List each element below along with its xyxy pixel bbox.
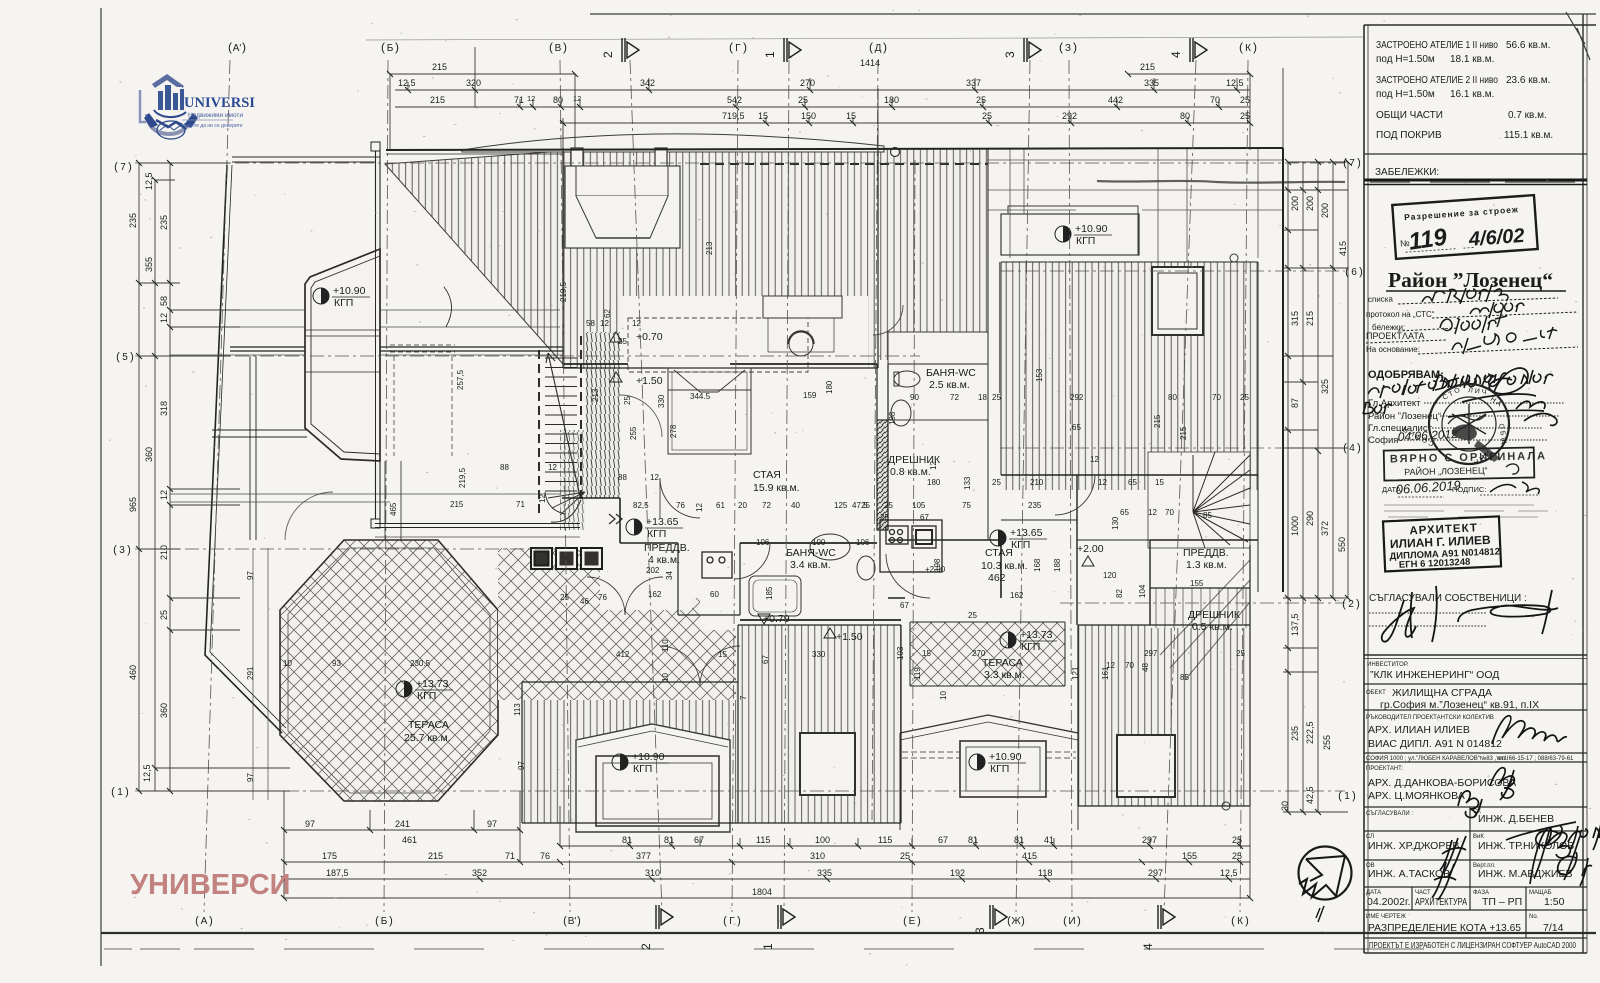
svg-text:Б: Б <box>381 916 388 927</box>
svg-text:): ) <box>1253 40 1257 54</box>
top edge wall <box>386 148 1283 150</box>
svg-text:67: 67 <box>694 835 704 845</box>
svg-text:121: 121 <box>1071 666 1080 680</box>
right dim labels (rotated) <box>1280 196 1348 811</box>
svg-text:965: 965 <box>128 497 138 512</box>
svg-text:215: 215 <box>430 95 445 105</box>
svg-text:): ) <box>1357 157 1361 169</box>
svg-text:2: 2 <box>1348 599 1354 610</box>
room labels <box>404 331 1241 865</box>
bath WC 3.4 fixtures <box>749 534 875 616</box>
building outer walls <box>170 142 1283 823</box>
area summary text <box>1376 40 1553 141</box>
svg-text:протокол на „СТС“: протокол на „СТС“ <box>1366 310 1435 319</box>
svg-text:К: К <box>1237 916 1243 927</box>
svg-text:): ) <box>737 915 741 927</box>
svg-text:1414: 1414 <box>860 58 880 68</box>
svg-text:СЪГЛАСУВАЛИ :: СЪГЛАСУВАЛИ : <box>1366 811 1413 817</box>
svg-text:списка: списка <box>1368 295 1394 304</box>
svg-text:97: 97 <box>305 819 315 829</box>
svg-text:61: 61 <box>716 501 725 510</box>
svg-text:159: 159 <box>803 391 817 400</box>
svg-text:41: 41 <box>1044 835 1054 845</box>
svg-text:222,5: 222,5 <box>1305 721 1315 744</box>
svg-text:270: 270 <box>972 649 986 658</box>
svg-text:): ) <box>1245 915 1249 927</box>
svg-text:320: 320 <box>466 78 481 88</box>
svg-text:): ) <box>1356 598 1360 610</box>
svg-text:155: 155 <box>1190 579 1204 588</box>
svg-text:377: 377 <box>636 851 651 861</box>
svg-text:465: 465 <box>389 502 398 516</box>
svg-text:71: 71 <box>514 95 524 105</box>
svg-text:462: 462 <box>988 572 1006 584</box>
svg-text:ПРЕДДВ.: ПРЕДДВ. <box>644 542 690 554</box>
svg-text:67: 67 <box>761 655 770 664</box>
bed furniture <box>668 368 751 454</box>
bottom scan noise dashed row <box>104 948 1424 950</box>
svg-text:81: 81 <box>664 835 674 845</box>
svg-text:20: 20 <box>738 501 747 510</box>
svg-text:16.1 кв.м.: 16.1 кв.м. <box>1450 89 1494 100</box>
svg-text:(: ( <box>549 40 553 54</box>
svg-text:(: ( <box>1342 598 1346 610</box>
svg-text:106: 106 <box>856 538 870 547</box>
svg-text:+13.65: +13.65 <box>1010 527 1043 539</box>
svg-text:58: 58 <box>586 319 595 328</box>
svg-text:412: 412 <box>616 650 630 659</box>
svg-text:70: 70 <box>1212 393 1221 402</box>
svg-text:87: 87 <box>1290 398 1300 408</box>
svg-text:7: 7 <box>120 162 126 173</box>
svg-text:550: 550 <box>1337 537 1347 552</box>
svg-text:81: 81 <box>968 835 978 845</box>
arc band above dormer <box>460 126 884 152</box>
svg-text:125: 125 <box>834 501 848 510</box>
svg-text:297: 297 <box>1144 649 1158 658</box>
svg-text:80: 80 <box>1180 111 1190 121</box>
svg-text:97: 97 <box>487 819 497 829</box>
white dormer cutout bottom-left balcony <box>576 724 730 832</box>
svg-text:215: 215 <box>1305 311 1315 326</box>
title block frame <box>1363 25 1365 953</box>
svg-text:12: 12 <box>159 313 169 323</box>
svg-text:215: 215 <box>1140 62 1155 72</box>
UNIVERSI logo top-left <box>140 74 255 139</box>
axis dash-dot grid lines vertical <box>204 60 1248 912</box>
top dimension chains <box>390 47 1283 150</box>
svg-text:РЪКОВОДИТЕЛ ПРОЕКТАНТСКИ КОЛЕК: РЪКОВОДИТЕЛ ПРОЕКТАНТСКИ КОЛЕКТИВ <box>1366 715 1494 721</box>
svg-text:192: 192 <box>950 868 965 878</box>
svg-text:7/14: 7/14 <box>1543 922 1564 934</box>
svg-text:): ) <box>1352 790 1356 802</box>
svg-text:241: 241 <box>395 819 410 829</box>
small level triangles <box>610 332 1094 638</box>
left slant edge <box>205 165 282 733</box>
svg-text:10: 10 <box>283 659 292 668</box>
svg-text:З: З <box>1065 43 1071 54</box>
svg-text:12,5: 12,5 <box>1220 868 1238 878</box>
svg-text:297: 297 <box>1142 835 1157 845</box>
svg-text:Ж: Ж <box>1011 916 1021 927</box>
svg-text:460: 460 <box>128 665 138 680</box>
svg-text:): ) <box>577 915 581 927</box>
svg-text:15: 15 <box>758 111 768 121</box>
svg-text:85: 85 <box>1203 511 1212 520</box>
dotted note lines with handwriting <box>1366 295 1435 354</box>
svg-text:442: 442 <box>1108 95 1123 105</box>
svg-text:88: 88 <box>500 463 509 472</box>
svg-text:75: 75 <box>962 501 971 510</box>
svg-text:КГП: КГП <box>417 690 436 702</box>
svg-text:+2.00: +2.00 <box>925 565 946 574</box>
svg-text:113: 113 <box>513 703 522 716</box>
svg-text:344.5: 344.5 <box>690 392 711 401</box>
svg-text:10: 10 <box>661 673 670 682</box>
hatch block borders <box>563 148 878 368</box>
svg-text:202: 202 <box>646 566 660 575</box>
svg-text:115.1 кв.м.: 115.1 кв.м. <box>1504 130 1553 141</box>
dormer chimney strips <box>571 148 583 178</box>
roof hatch top-left triangle <box>385 151 563 364</box>
svg-text:1000: 1000 <box>1290 516 1300 536</box>
svg-text:330: 330 <box>812 650 826 659</box>
svg-text:12: 12 <box>695 503 704 512</box>
svg-text:25: 25 <box>560 593 569 602</box>
svg-text:200: 200 <box>1320 203 1330 218</box>
signature right <box>1448 401 1557 425</box>
svg-text:15: 15 <box>846 111 856 121</box>
svg-text:): ) <box>1073 40 1077 54</box>
level mark symbols <box>313 223 1112 775</box>
svg-text:180: 180 <box>927 478 941 487</box>
svg-text:215: 215 <box>1179 426 1188 440</box>
svg-text:255: 255 <box>629 426 638 440</box>
svg-text:КГП: КГП <box>1021 641 1040 653</box>
svg-text:1804: 1804 <box>752 887 772 897</box>
svg-text:4/6/02: 4/6/02 <box>1467 225 1525 251</box>
svg-text:): ) <box>563 40 567 54</box>
top-right region sparse lines <box>988 148 1345 262</box>
svg-text:): ) <box>395 40 399 54</box>
svg-text:25: 25 <box>992 393 1001 402</box>
svg-text:81: 81 <box>622 835 632 845</box>
svg-text:): ) <box>917 915 921 927</box>
middle dormer hood between balconies <box>900 715 1078 830</box>
svg-text:): ) <box>743 40 747 54</box>
white corridor cutout in cross-hatch <box>600 548 692 610</box>
interior walls right wing <box>1001 475 1258 625</box>
svg-text:12: 12 <box>929 461 938 470</box>
svg-text:105: 105 <box>912 501 926 510</box>
svg-text:80: 80 <box>1168 393 1177 402</box>
svg-text:23.6 кв.м.: 23.6 кв.м. <box>1506 75 1550 86</box>
svg-text:25.7 кв.м.: 25.7 кв.м. <box>404 732 451 744</box>
svg-text:72: 72 <box>950 393 959 402</box>
svg-text:198: 198 <box>888 411 897 425</box>
axis bubbles left/right <box>111 157 1363 802</box>
svg-text:ЗАСТРОЕНО АТЕЛИЕ 2 II ниво: ЗАСТРОЕНО АТЕЛИЕ 2 II ниво <box>1376 75 1498 86</box>
svg-text:На основание:: На основание: <box>1366 345 1420 354</box>
svg-text:4: 4 <box>1141 943 1155 950</box>
svg-text:65: 65 <box>1120 508 1129 517</box>
svg-text:7: 7 <box>1349 158 1355 169</box>
svg-text:КГП: КГП <box>1011 539 1030 551</box>
round municipal stamp <box>1402 384 1509 466</box>
svg-text:ПРЕДДВ.: ПРЕДДВ. <box>1183 547 1229 559</box>
svg-text:+13.73: +13.73 <box>416 678 449 690</box>
svg-text:200: 200 <box>1305 196 1315 211</box>
svg-text:25: 25 <box>1236 649 1245 658</box>
left dimension chains <box>139 163 290 791</box>
terrace cross-hatch right band <box>498 548 736 700</box>
svg-text:Можете да ни се доверите: Можете да ни се доверите <box>181 123 243 129</box>
svg-text:25: 25 <box>1240 393 1249 402</box>
svg-text:1:50: 1:50 <box>1544 896 1565 908</box>
svg-text:1: 1 <box>117 787 123 798</box>
svg-text:”КЛК ИНЖЕНЕРИНГ“ ООД: ”КЛК ИНЖЕНЕРИНГ“ ООД <box>1370 669 1499 681</box>
svg-text:СТАЯ: СТАЯ <box>753 469 781 481</box>
svg-text:ПОДПИС:: ПОДПИС: <box>1452 485 1486 494</box>
svg-text:12,5: 12,5 <box>398 78 416 88</box>
svg-text:): ) <box>1359 266 1363 278</box>
svg-text:310: 310 <box>810 851 825 861</box>
svg-text:АРХИТЕКТУРА: АРХИТЕКТУРА <box>1415 896 1467 908</box>
svg-text:ТП – РП: ТП – РП <box>1482 896 1522 908</box>
svg-text:тел. 66-15-17 ; 088/63-79-61: тел. 66-15-17 ; 088/63-79-61 <box>1496 756 1574 762</box>
svg-text:3.3 кв.м.: 3.3 кв.м. <box>984 669 1025 681</box>
svg-text:+10.90: +10.90 <box>1075 223 1108 235</box>
svg-text:Д: Д <box>875 43 882 54</box>
svg-text:104: 104 <box>1138 584 1147 598</box>
svg-text:100: 100 <box>812 538 826 547</box>
svg-text:4: 4 <box>1169 51 1183 58</box>
svg-text:6: 6 <box>1351 267 1357 278</box>
axis dash-dot grid lines horizontal <box>135 163 1345 791</box>
svg-text:12: 12 <box>538 494 547 503</box>
svg-text:Район ”Лозенец“: Район ”Лозенец“ <box>1388 268 1553 292</box>
svg-text:РАЗПРЕДЕЛЕНИЕ КОТА +13.65: РАЗПРЕДЕЛЕНИЕ КОТА +13.65 <box>1368 922 1521 934</box>
svg-text:335: 335 <box>817 868 832 878</box>
svg-text:210: 210 <box>1030 478 1044 487</box>
svg-text:Г: Г <box>735 43 741 54</box>
svg-text:40: 40 <box>791 501 800 510</box>
svg-text:110: 110 <box>661 639 670 652</box>
svg-text:): ) <box>128 161 132 173</box>
svg-text:318: 318 <box>159 401 169 416</box>
svg-text:ОБЩИ ЧАСТИ: ОБЩИ ЧАСТИ <box>1376 110 1443 121</box>
svg-text:(: ( <box>869 40 873 54</box>
svg-text:7: 7 <box>739 695 748 700</box>
svg-text:15: 15 <box>718 650 727 659</box>
svg-text:25: 25 <box>884 501 893 510</box>
svg-text:76: 76 <box>676 501 685 510</box>
svg-text:10.3 кв.м.: 10.3 кв.м. <box>981 560 1028 572</box>
svg-text:219,5: 219,5 <box>458 467 467 488</box>
svg-text:168: 168 <box>1033 558 1042 572</box>
svg-text:1: 1 <box>1344 791 1350 802</box>
roof hatch bottom-right balcony <box>1078 625 1250 806</box>
svg-text:Г: Г <box>729 916 735 927</box>
svg-text:ТЕРАСА: ТЕРАСА <box>408 719 449 731</box>
heavy dash axis line over hatch <box>700 163 1283 165</box>
svg-text:215: 215 <box>450 500 464 509</box>
official lines <box>1368 398 1441 446</box>
svg-text:25: 25 <box>982 111 992 121</box>
svg-text:25: 25 <box>1232 851 1242 861</box>
svg-text:461: 461 <box>402 835 417 845</box>
left wing interior lines <box>212 356 307 540</box>
svg-text:415: 415 <box>1338 241 1348 256</box>
svg-text:под H=1.50м: под H=1.50м <box>1376 89 1435 100</box>
svg-text:БАНЯ-WC: БАНЯ-WC <box>786 547 836 559</box>
svg-text:297: 297 <box>1148 868 1163 878</box>
interior walls middle <box>562 364 1001 620</box>
svg-text:): ) <box>1021 915 1025 927</box>
svg-text:(: ( <box>228 40 232 54</box>
svg-text:60: 60 <box>710 590 719 599</box>
svg-text:187,5: 187,5 <box>326 868 349 878</box>
svg-text:342: 342 <box>640 78 655 88</box>
svg-text:150: 150 <box>801 111 816 121</box>
svg-text:КГП: КГП <box>334 297 353 309</box>
svg-text:(: ( <box>723 915 727 927</box>
svg-text:25: 25 <box>618 337 627 346</box>
svg-text:133: 133 <box>963 476 972 490</box>
svg-text:КГП: КГП <box>1076 235 1095 247</box>
svg-text:48: 48 <box>1141 663 1150 672</box>
svg-text:25: 25 <box>1240 95 1250 105</box>
svg-text:25: 25 <box>992 478 1001 487</box>
door arcs <box>252 305 1095 862</box>
svg-text:ПРОЕКТΛАТА: ПРОЕКТΛАТА <box>1366 331 1425 341</box>
svg-text:1: 1 <box>761 943 775 950</box>
svg-text:235: 235 <box>128 213 138 228</box>
svg-text:542: 542 <box>727 95 742 105</box>
svg-text:0.7 кв.м.: 0.7 кв.м. <box>1508 110 1547 121</box>
svg-text:12: 12 <box>650 473 659 482</box>
svg-text:235: 235 <box>1028 501 1042 510</box>
white cutout above +0.70 area <box>620 296 868 372</box>
svg-text:+10.90: +10.90 <box>632 751 665 763</box>
svg-text:25: 25 <box>1232 835 1242 845</box>
svg-text:4 кв.м.: 4 кв.м. <box>648 554 680 566</box>
left stair steps <box>539 336 622 524</box>
svg-text:+13.73: +13.73 <box>1020 629 1053 641</box>
svg-text:93: 93 <box>332 659 341 668</box>
right spiral stair fan <box>1160 452 1250 680</box>
svg-text:(: ( <box>1343 442 1347 454</box>
bath WC 2.5 fixtures <box>891 371 920 426</box>
svg-text:355: 355 <box>144 257 154 272</box>
svg-text:330: 330 <box>657 394 666 408</box>
axis bubbles top <box>228 40 1257 54</box>
svg-text:АРХ. ИЛИАН ИЛИЕВ: АРХ. ИЛИАН ИЛИЕВ <box>1368 724 1470 736</box>
svg-text:257,5: 257,5 <box>456 369 465 390</box>
svg-text:(: ( <box>1059 40 1063 54</box>
svg-text:310: 310 <box>645 868 660 878</box>
permit stamp <box>1392 195 1537 259</box>
svg-text:235: 235 <box>1290 726 1300 741</box>
svg-text:80: 80 <box>553 95 563 105</box>
small terrace cross-hatch right <box>910 622 1065 686</box>
table texts <box>1366 662 1576 950</box>
svg-text:+1.50: +1.50 <box>636 375 663 387</box>
svg-text:278: 278 <box>669 424 678 438</box>
svg-text:Е: Е <box>909 916 916 927</box>
svg-text:162: 162 <box>648 590 662 599</box>
svg-text:(: ( <box>903 915 907 927</box>
svg-text:ОБЕКТ: ОБЕКТ <box>1366 690 1386 696</box>
svg-text:UNIVERSI: UNIVERSI <box>184 95 255 111</box>
section markers bottom <box>639 905 1175 950</box>
svg-text:25: 25 <box>900 851 910 861</box>
svg-text:15.9 кв.м.: 15.9 кв.м. <box>753 482 800 494</box>
svg-text:103: 103 <box>896 646 905 660</box>
svg-text:70: 70 <box>1210 95 1220 105</box>
svg-text:ЗАСТРОЕНО АТЕЛИЕ 1 II ниво: ЗАСТРОЕНО АТЕЛИЕ 1 II ниво <box>1376 40 1498 51</box>
svg-text:18: 18 <box>978 393 987 402</box>
upper structure left edge <box>376 148 381 524</box>
svg-text:БАНЯ-WC: БАНЯ-WC <box>926 367 976 379</box>
svg-text:82,5: 82,5 <box>633 501 649 510</box>
svg-text:3.4 кв.м.: 3.4 кв.м. <box>790 559 831 571</box>
svg-text:230.5: 230.5 <box>410 659 431 668</box>
svg-text:215: 215 <box>1153 414 1162 428</box>
svg-text:97: 97 <box>246 773 255 782</box>
svg-text:12,5: 12,5 <box>144 172 154 190</box>
svg-text:2: 2 <box>639 943 653 950</box>
svg-text:1: 1 <box>763 51 777 58</box>
electric panels dark squares <box>531 548 602 569</box>
bottom dim labels <box>305 819 1242 897</box>
svg-text:04.2002г.: 04.2002г. <box>1367 896 1410 908</box>
svg-text:71: 71 <box>505 851 515 861</box>
svg-text:12: 12 <box>527 94 535 103</box>
svg-text:И: И <box>1068 916 1075 927</box>
svg-text:325: 325 <box>1320 379 1330 394</box>
handwriting on note lines <box>1422 284 1557 354</box>
svg-text:ПРОЕКТЪТ Е ИЗРАБОТЕН С ЛИЦЕНЗИ: ПРОЕКТЪТ Е ИЗРАБОТЕН С ЛИЦЕНЗИРАН СОФТУЕ… <box>1369 940 1576 950</box>
roof hatch top-middle block <box>563 148 878 368</box>
svg-text:): ) <box>883 40 887 54</box>
svg-text:2: 2 <box>601 51 615 58</box>
bottom dimension chains <box>284 791 1250 898</box>
svg-text:97: 97 <box>246 571 255 580</box>
svg-text:): ) <box>127 544 131 556</box>
svg-text:(: ( <box>1239 40 1243 54</box>
svg-text:+10.90: +10.90 <box>989 751 1022 763</box>
white window cutout bottom-middle balcony <box>800 733 855 795</box>
svg-text:360: 360 <box>159 703 169 718</box>
svg-text:130: 130 <box>1111 516 1120 530</box>
svg-text:ПРОЕКТАНТ:: ПРОЕКТАНТ: <box>1366 766 1404 772</box>
svg-text:213: 213 <box>705 241 714 255</box>
svg-text:(: ( <box>195 915 199 927</box>
svg-text:255: 255 <box>1322 735 1332 750</box>
svg-text:гр.София м.”Лозенец“ кв.9: гр.София м.”Лозенец“ кв.91, п.IX <box>1380 699 1539 711</box>
svg-text:81: 81 <box>1014 835 1024 845</box>
svg-text:12,5: 12,5 <box>142 764 152 782</box>
svg-text:12: 12 <box>600 319 609 328</box>
svg-text:): ) <box>209 915 213 927</box>
svg-text:67: 67 <box>900 601 909 610</box>
ВЯРНО stamp box <box>1384 447 1548 480</box>
svg-text:115: 115 <box>756 835 770 845</box>
svg-text:Б: Б <box>387 43 394 54</box>
svg-text:0.5 кв.м.: 0.5 кв.м. <box>1192 621 1233 633</box>
svg-text:25: 25 <box>880 513 889 522</box>
